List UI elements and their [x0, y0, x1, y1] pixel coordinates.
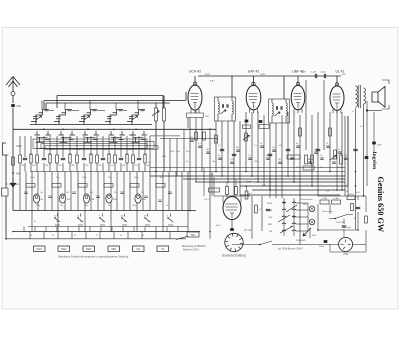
- wire stem: [137, 101, 139, 110]
- svg-text:UAF 42: UAF 42: [248, 70, 260, 74]
- tube pin leads: [294, 109, 302, 114]
- wire: [30, 163, 32, 172]
- wire: [110, 172, 112, 232]
- svg-text:140p: 140p: [254, 161, 258, 163]
- junction: [189, 210, 191, 212]
- band switch coil group: [31, 110, 49, 125]
- wire bus: [28, 226, 188, 228]
- wire stub: [122, 227, 124, 232]
- wire: [69, 163, 71, 172]
- wire: [296, 202, 308, 204]
- svg-text:906: 906: [141, 192, 144, 194]
- svg-text:0,1: 0,1: [248, 155, 251, 157]
- wafer switch W1: [282, 202, 296, 231]
- junction: [155, 171, 157, 173]
- wire B+ rail: [198, 75, 341, 77]
- capacitor tick: [308, 162, 312, 163]
- wire top cap lead: [336, 76, 338, 86]
- wire stub: [67, 227, 69, 232]
- resistor: [299, 128, 302, 136]
- band switch coil group: [105, 110, 123, 125]
- tube U4 UL 41: [330, 86, 344, 111]
- wire: [317, 112, 319, 196]
- svg-text:50k: 50k: [314, 149, 317, 151]
- band switch coil group: [54, 110, 72, 125]
- padding capacitor: [49, 154, 51, 163]
- svg-text:100Ω: 100Ω: [348, 194, 354, 196]
- wire: [275, 123, 277, 198]
- coil: [364, 88, 366, 104]
- IF transformer Fi1 leads: [218, 97, 232, 121]
- svg-text:20k: 20k: [122, 165, 125, 167]
- wire: [25, 172, 27, 211]
- wire speaker return: [366, 101, 368, 186]
- svg-text:UCH 42: UCH 42: [189, 70, 201, 74]
- wire antenna to bus: [12, 129, 14, 210]
- band switch coil group: [131, 131, 148, 142]
- variable arrow: [152, 111, 159, 116]
- svg-text:1M: 1M: [296, 167, 299, 169]
- antenna series capacitor: [11, 104, 15, 107]
- capacitor: [23, 158, 27, 159]
- tube U5 UY 41 internals: [226, 204, 238, 218]
- svg-text:220-240V: 220-240V: [336, 222, 346, 224]
- band button box TA: [157, 246, 169, 252]
- resistor 70 base box: [187, 113, 204, 118]
- wire: [329, 244, 331, 252]
- junction: [257, 181, 259, 183]
- wire: [163, 96, 165, 109]
- svg-text:1kΩ: 1kΩ: [226, 182, 230, 184]
- wire rail: [183, 178, 345, 180]
- junction: [221, 175, 223, 177]
- wire: [49, 163, 51, 172]
- wire antenna lead: [12, 87, 14, 92]
- coil can core: [85, 196, 88, 199]
- ground chassis arrow: [10, 178, 16, 187]
- capacitor tick: [344, 158, 348, 159]
- svg-text:24: 24: [74, 235, 76, 237]
- capacitor: [232, 154, 236, 155]
- svg-text:5000: 5000: [319, 246, 325, 248]
- wire rail: [150, 167, 345, 169]
- volume potentiometer arrow: [330, 155, 336, 160]
- junction: [131, 121, 133, 123]
- svg-text:903: 903: [66, 192, 69, 194]
- dial lamp La2: [309, 219, 315, 225]
- svg-text:0,1µF: 0,1µF: [311, 72, 317, 74]
- wire: [76, 163, 78, 172]
- wire: [187, 172, 189, 232]
- wire: [108, 163, 110, 172]
- wire rail: [150, 175, 345, 177]
- wire: [123, 172, 125, 211]
- wire: [19, 136, 21, 155]
- wire: [233, 121, 235, 196]
- wire: [132, 163, 134, 172]
- capacitor tick: [24, 192, 28, 193]
- wire top cap lead: [194, 76, 196, 85]
- junction: [245, 185, 247, 187]
- svg-text:20k: 20k: [98, 165, 101, 167]
- junction: [58, 121, 60, 123]
- wire stub: [71, 232, 73, 239]
- svg-text:bei UKW-Betrieb 0,5A/V: bei UKW-Betrieb 0,5A/V: [278, 248, 303, 251]
- rectifier internals: [341, 240, 351, 250]
- fuse 0,1A: [332, 200, 341, 204]
- svg-text:1M: 1M: [272, 147, 275, 149]
- wire stub: [57, 232, 59, 239]
- capacitor tick: [236, 150, 240, 151]
- resistor: [52, 184, 61, 188]
- svg-text:LW: LW: [136, 248, 140, 251]
- junction: [293, 216, 295, 218]
- band switch coil group: [35, 131, 52, 142]
- junction: [113, 129, 115, 131]
- wire: [96, 163, 98, 172]
- wire stem: [89, 101, 91, 110]
- wire: [102, 136, 104, 157]
- wire stub: [127, 232, 129, 239]
- wire connector: [97, 110, 105, 112]
- wire oscillator rail: [57, 95, 163, 97]
- junction: [62, 129, 64, 131]
- resistor: [329, 128, 332, 136]
- junction: [317, 229, 319, 231]
- svg-text:1M: 1M: [148, 162, 151, 164]
- resistor: [96, 155, 99, 163]
- IF transformer Fi1: [215, 97, 236, 121]
- junction: [209, 231, 211, 233]
- junction: [231, 195, 233, 197]
- wire: [347, 116, 349, 196]
- resistor: [26, 184, 35, 188]
- wafer switch lever: [278, 215, 290, 222]
- junction: [329, 171, 331, 173]
- capacitor tick: [198, 146, 202, 147]
- band switch frame: [45, 146, 158, 149]
- wire: [261, 196, 263, 231]
- wire: [5, 196, 7, 239]
- svg-text:35: 35: [142, 235, 144, 237]
- svg-text:0,1µF: 0,1µF: [321, 72, 327, 74]
- svg-text:70Ω: 70Ω: [205, 116, 209, 118]
- wire: [62, 136, 64, 157]
- speaker LS: [372, 87, 385, 108]
- svg-text:5n: 5n: [338, 149, 340, 151]
- svg-text:KW3: KW3: [86, 248, 92, 251]
- wire: [323, 80, 325, 150]
- svg-text:MW: MW: [303, 204, 307, 206]
- wire stub: [29, 232, 31, 239]
- rectifier circle G1: [339, 237, 353, 251]
- junction: [259, 244, 261, 246]
- svg-text:Genius 650 GW: Genius 650 GW: [376, 177, 385, 233]
- wire: [226, 195, 228, 198]
- resistor: [259, 125, 269, 129]
- wire: [176, 139, 178, 177]
- variable arrow: [84, 116, 90, 120]
- junction: [121, 217, 122, 218]
- capacitor: [220, 149, 224, 150]
- wire: [296, 230, 308, 232]
- wire: [97, 172, 99, 211]
- wire: [83, 163, 85, 172]
- resistor: [334, 150, 337, 159]
- band switch frame: [41, 144, 147, 149]
- svg-text:TA: TA: [161, 248, 164, 251]
- resistor: [340, 155, 343, 164]
- wire: [144, 136, 146, 155]
- wire stem: [41, 101, 43, 110]
- dial lamp La2 cross: [310, 220, 314, 224]
- wafer switch lever: [280, 205, 297, 233]
- svg-text:0,1A: 0,1A: [334, 197, 339, 200]
- trimmer arrow: [243, 135, 249, 140]
- capacitor: [42, 158, 46, 159]
- svg-text:0,5M: 0,5M: [338, 167, 343, 169]
- band switch coil group: [83, 131, 100, 142]
- coil can 906: [135, 194, 141, 203]
- wire stub: [155, 232, 157, 239]
- wire: [293, 198, 295, 236]
- wire: [257, 112, 259, 182]
- electrolytic: [245, 120, 249, 123]
- wire stub: [100, 227, 102, 232]
- resistor 10k: [287, 155, 300, 159]
- switch contact: [168, 214, 173, 226]
- resistor 1k: [209, 188, 220, 192]
- wire: [43, 163, 45, 172]
- wire AVC rail: [30, 171, 345, 173]
- wire: [245, 112, 247, 172]
- wire: [226, 183, 228, 187]
- IF transformer Fi1 tuning capacitor: [227, 104, 228, 107]
- junction: [251, 175, 253, 177]
- tube socket diagram: [225, 233, 243, 251]
- electrolytic: [365, 156, 369, 159]
- tube U3 UBF 42: [291, 85, 305, 110]
- capacitor: [266, 209, 270, 210]
- resistor 0,3M: [305, 155, 308, 164]
- svg-text:MW: MW: [111, 248, 116, 251]
- junction: [355, 171, 357, 173]
- input terminal block: [2, 188, 9, 196]
- wire: [155, 121, 157, 172]
- padding capacitor: [30, 154, 32, 163]
- wire: [76, 136, 78, 155]
- wire top cap lead: [253, 76, 255, 85]
- capacitor: [356, 207, 360, 208]
- capacitor 5000pF: [324, 240, 328, 243]
- resistor antenna bleeder: [12, 157, 15, 165]
- capacitor tick: [230, 162, 234, 163]
- wire: [84, 172, 86, 232]
- svg-text:0,5: 0,5: [320, 155, 323, 157]
- coil can 905: [106, 194, 112, 203]
- svg-text:500: 500: [191, 234, 196, 237]
- switch contact: [122, 214, 127, 226]
- wire: [269, 177, 271, 198]
- capacitor: [137, 158, 141, 159]
- wire: [189, 117, 191, 211]
- wire: [144, 163, 146, 172]
- resistor: [303, 166, 314, 170]
- wire: [5, 155, 7, 188]
- IF transformer Fi1 secondary coil: [232, 101, 233, 114]
- svg-text:31: 31: [120, 235, 122, 237]
- junction: [245, 171, 247, 173]
- svg-text:50k: 50k: [320, 167, 323, 169]
- capacitor tick: [72, 192, 76, 193]
- wire: [64, 172, 66, 211]
- svg-text:3n: 3n: [160, 177, 162, 179]
- resistor: [36, 155, 39, 163]
- wire heater rail: [214, 195, 250, 197]
- band button box MW: [108, 246, 120, 252]
- wire: [209, 232, 211, 239]
- wire: [235, 179, 237, 187]
- wire: [299, 196, 301, 244]
- switch contact: [100, 214, 105, 226]
- wire: [251, 196, 253, 239]
- coil can core: [35, 196, 38, 199]
- switch contact: [145, 214, 150, 226]
- wire: [231, 76, 233, 97]
- wire: [90, 163, 92, 172]
- antenna coupling coil: [11, 92, 15, 96]
- junction: [355, 185, 357, 187]
- wire stub: [56, 227, 58, 232]
- wire: [138, 136, 140, 157]
- electrolytic: [259, 120, 263, 123]
- wire: [24, 136, 26, 157]
- junction: [87, 129, 89, 131]
- junction: [311, 185, 313, 187]
- wire: [363, 104, 365, 196]
- tube pin leads: [333, 109, 341, 114]
- svg-text:225p: 225p: [132, 205, 136, 207]
- wire: [149, 136, 151, 172]
- svg-text:905: 905: [114, 192, 117, 194]
- resistor 500: [187, 232, 199, 237]
- wire: [330, 251, 366, 253]
- svg-text:76p: 76p: [60, 205, 63, 207]
- wire: [317, 204, 319, 230]
- padding capacitor: [144, 154, 146, 163]
- resistor: [56, 155, 59, 163]
- wire stub: [78, 227, 80, 232]
- wire: [246, 186, 248, 191]
- switch contact: [78, 214, 83, 226]
- wire: [90, 136, 92, 155]
- wire: [43, 101, 45, 110]
- speaker terminals: [382, 80, 389, 109]
- capacitor tick: [168, 192, 172, 193]
- resistor: [78, 184, 87, 188]
- wire: [108, 136, 110, 155]
- svg-text:150p: 150p: [36, 205, 40, 207]
- resistor: [245, 133, 248, 141]
- wire: [353, 243, 366, 245]
- wire link: [160, 138, 218, 140]
- wire: [329, 112, 331, 172]
- svg-text:0,1: 0,1: [198, 143, 201, 145]
- wire: [51, 172, 53, 211]
- svg-text:30µF: 30µF: [377, 145, 382, 147]
- resistor: [203, 132, 206, 140]
- wire: [138, 163, 140, 172]
- wire: [355, 108, 357, 230]
- wire: [367, 110, 382, 112]
- junction: [366, 109, 368, 111]
- svg-text:230V: 230V: [301, 72, 306, 74]
- coil can core: [108, 196, 111, 199]
- wire: [168, 172, 170, 211]
- svg-text:78p: 78p: [108, 205, 111, 207]
- wire: [31, 172, 33, 232]
- padding capacitor: [108, 154, 110, 163]
- svg-text:Tr: Tr: [352, 110, 354, 113]
- wire: [155, 103, 157, 108]
- svg-text:30k: 30k: [344, 155, 347, 157]
- wire stub: [113, 232, 115, 239]
- svg-text:KW2: KW2: [61, 248, 67, 251]
- wire connector: [49, 110, 54, 112]
- IF transformer Fi2 primary coil: [272, 103, 273, 116]
- capacitor: [286, 149, 290, 150]
- wire: [155, 172, 157, 211]
- resistor 100: [347, 196, 355, 200]
- tube U3 UBF 42 internals: [294, 94, 302, 109]
- svg-text:0,2A: 0,2A: [322, 197, 327, 200]
- tube pin leads: [191, 109, 199, 114]
- wire bus: [13, 231, 200, 233]
- wire: [103, 172, 105, 211]
- tube U1 UCH 42 internals: [191, 94, 199, 109]
- wire stub: [155, 227, 157, 232]
- capacitor: [268, 154, 272, 155]
- wire: [341, 112, 343, 190]
- coil can 904: [83, 194, 89, 203]
- junction: [293, 181, 295, 183]
- wire stem: [115, 103, 117, 110]
- wire: [231, 220, 233, 229]
- svg-text:904: 904: [90, 192, 93, 194]
- padding capacitor: [126, 154, 128, 163]
- capacitor tick: [260, 146, 264, 147]
- wire: [263, 115, 265, 186]
- IF transformer Fi2 tuning capacitor: [276, 106, 277, 109]
- junction: [12, 172, 14, 174]
- wire: [162, 172, 164, 232]
- wire: [77, 172, 79, 211]
- wire: [36, 163, 38, 172]
- svg-text:50p: 50p: [266, 155, 269, 157]
- wire: [56, 136, 58, 155]
- tube U2 UAF 42: [246, 85, 261, 110]
- wire: [296, 216, 308, 218]
- wire: [329, 204, 331, 214]
- svg-text:tr 2: tr 2: [360, 125, 363, 128]
- junction: [287, 175, 289, 177]
- oscillator coil L9: [155, 108, 158, 121]
- band switch frame: [33, 139, 147, 149]
- wire: [343, 219, 345, 225]
- wire: [129, 172, 131, 211]
- wire: [309, 228, 311, 238]
- tube U2 UAF 42 top cap: [252, 82, 255, 85]
